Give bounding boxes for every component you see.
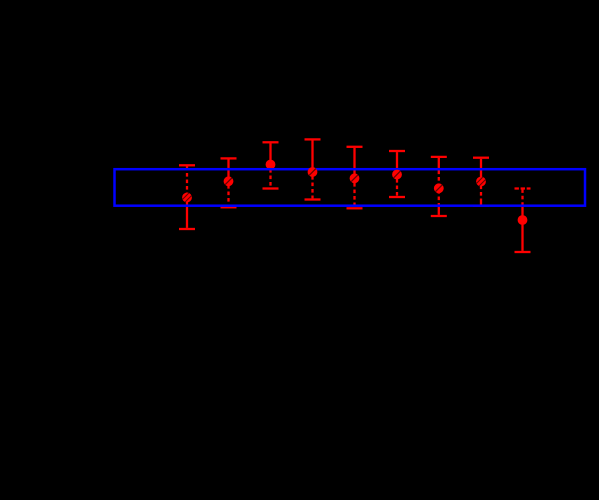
error bar P7 <box>431 157 447 216</box>
marker P3 (under band line) <box>266 160 276 170</box>
blue band rectangle <box>115 169 586 206</box>
marker P1 <box>182 193 192 203</box>
marker P4 <box>308 167 318 177</box>
marker P6 <box>392 170 402 180</box>
error bar P4 <box>305 139 321 199</box>
marker P7 <box>434 183 444 193</box>
marker P2 <box>224 176 234 186</box>
error bar P3 <box>263 142 279 188</box>
error bar P9 <box>515 189 531 253</box>
marker P9 <box>518 215 528 225</box>
error bar P8 <box>473 158 489 206</box>
error bar P5 <box>347 147 363 209</box>
error bar P6 <box>389 151 405 197</box>
marker P8 <box>476 177 486 187</box>
error bar P1 <box>179 165 195 229</box>
error bar P2 <box>221 158 237 207</box>
marker P5 <box>350 173 360 183</box>
